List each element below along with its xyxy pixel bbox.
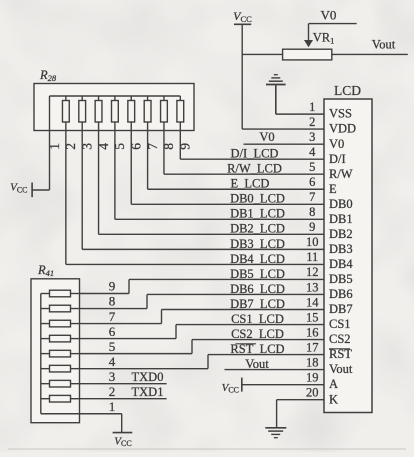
wire R41 pin 8 to LCD pin 13 (DB6_LCD) <box>80 294 325 308</box>
svg-text:2: 2 <box>109 384 116 399</box>
resistor R28-9 element <box>177 96 184 131</box>
svg-text:14: 14 <box>306 295 319 309</box>
R28 pin 1 lead <box>49 96 51 190</box>
svg-text:16: 16 <box>306 325 319 339</box>
ground (bottom, K) <box>265 428 286 438</box>
power symbol VCC (pin 19 A) <box>222 378 242 395</box>
svg-text:1: 1 <box>309 100 315 114</box>
R28 common bus <box>50 95 181 97</box>
svg-text:6: 6 <box>109 324 116 339</box>
svg-text:CS2_LCD: CS2_LCD <box>231 327 284 341</box>
resistor R41-8 element <box>41 305 80 312</box>
wire VCC bar to R28 pin 1 <box>32 189 49 191</box>
svg-text:3: 3 <box>309 130 315 144</box>
svg-text:DB6: DB6 <box>329 287 353 301</box>
resistor R41-5 element <box>41 350 80 357</box>
svg-text:E: E <box>329 182 337 196</box>
svg-text:Vout: Vout <box>372 37 396 51</box>
svg-text:E_LCD: E_LCD <box>231 177 270 191</box>
svg-text:DB0: DB0 <box>329 197 353 211</box>
svg-text:19: 19 <box>306 370 319 384</box>
resistor R41-6 element <box>41 335 80 342</box>
svg-text:D/I: D/I <box>329 152 346 166</box>
svg-text:DB2_LCD: DB2_LCD <box>230 222 285 236</box>
resistor network R28 box <box>34 68 194 131</box>
svg-text:K: K <box>329 392 338 406</box>
svg-text:LCD: LCD <box>334 83 361 98</box>
svg-text:DB4: DB4 <box>329 257 353 271</box>
resistor R28-3 element <box>79 96 86 131</box>
svg-text:DB4_LCD: DB4_LCD <box>230 252 285 266</box>
wire R28 pin 6 to LCD pin 7 (DB0_LCD) <box>131 131 324 205</box>
wire R41 pin 9 to LCD pin 12 (DB5_LCD) <box>80 279 325 293</box>
resistor R28-8 element <box>161 96 168 131</box>
svg-text:8: 8 <box>109 294 116 309</box>
wire R41 pin 4 to LCD pin 17 (RST_LCD) <box>80 355 325 369</box>
svg-text:Vout: Vout <box>329 362 353 376</box>
resistor R41-9 element <box>41 290 80 297</box>
svg-text:13: 13 <box>306 280 319 294</box>
resistor R28-5 element <box>112 96 119 131</box>
svg-text:DB1_LCD: DB1_LCD <box>230 207 285 221</box>
svg-text:8: 8 <box>309 205 315 219</box>
resistor network R41 box <box>31 263 80 423</box>
scan artifact line <box>8 448 406 450</box>
svg-text:DB3_LCD: DB3_LCD <box>230 237 285 251</box>
svg-text:DB2: DB2 <box>329 227 353 241</box>
svg-text:TXD0: TXD0 <box>132 370 164 384</box>
resistor R28-7 element <box>144 96 151 131</box>
svg-text:17: 17 <box>306 340 319 354</box>
svg-text:7: 7 <box>309 190 315 204</box>
svg-text:CS1: CS1 <box>329 317 351 331</box>
LCD module U1 box <box>324 83 372 413</box>
svg-text:DB1: DB1 <box>329 212 353 226</box>
wire R28 pin 4 to LCD pin 9 (DB2_LCD) <box>99 131 324 235</box>
svg-text:V0: V0 <box>321 8 337 23</box>
svg-text:DB0_LCD: DB0_LCD <box>230 192 285 206</box>
svg-text:R/W: R/W <box>329 167 353 181</box>
svg-text:6: 6 <box>309 175 315 189</box>
wire VCC to potentiometer left terminal <box>242 53 282 55</box>
pin 17 name RST <box>329 347 352 361</box>
svg-text:A: A <box>329 377 338 391</box>
svg-text:CS2: CS2 <box>329 332 351 346</box>
power symbol VCC (top, to VDD) <box>233 9 252 24</box>
svg-text:9: 9 <box>309 220 315 234</box>
svg-text:18: 18 <box>306 355 319 369</box>
resistor R28-6 element <box>128 96 135 131</box>
wire R41 pin 2 (TXD1) <box>80 398 167 400</box>
wire VDD into LCD pin 2 <box>242 128 324 130</box>
svg-text:DB3: DB3 <box>329 242 353 256</box>
svg-text:5: 5 <box>309 160 315 174</box>
svg-text:TXD1: TXD1 <box>132 385 164 399</box>
ground (top, VSS) <box>266 75 286 114</box>
resistor R28-2 element <box>62 96 69 131</box>
svg-text:D/I_LCD: D/I_LCD <box>231 147 279 161</box>
wire R28 pin 5 to LCD pin 8 (DB1_LCD) <box>115 131 324 220</box>
svg-text:1: 1 <box>109 399 116 414</box>
svg-text:R/W_LCD: R/W_LCD <box>227 162 282 176</box>
resistor R41-3 element <box>41 380 80 387</box>
resistor R41-7 element <box>41 320 80 327</box>
svg-text:15: 15 <box>306 310 319 324</box>
wire R41 pin 3 (TXD0) <box>80 383 167 385</box>
svg-text:20: 20 <box>306 385 319 399</box>
wire potentiometer right terminal to Vout <box>332 37 408 54</box>
svg-text:12: 12 <box>306 265 319 279</box>
svg-text:10: 10 <box>306 235 319 249</box>
svg-text:DB6_LCD: DB6_LCD <box>230 282 285 296</box>
wire R28 pin 8 to LCD pin 5 (R/W_LCD) <box>164 131 324 175</box>
svg-text:7: 7 <box>109 309 116 324</box>
svg-text:4: 4 <box>309 145 316 159</box>
svg-text:DB7_LCD: DB7_LCD <box>230 297 285 311</box>
wire LCD pin 20 to ground <box>277 400 324 428</box>
node V0 (wiper wire with arrow) <box>304 8 357 48</box>
svg-text:2: 2 <box>309 115 315 129</box>
net label RST_LCD <box>230 342 284 356</box>
svg-text:VDD: VDD <box>329 122 356 136</box>
svg-text:V0: V0 <box>329 137 344 151</box>
svg-text:5: 5 <box>109 339 116 354</box>
net label Vout to LCD pin 18 <box>225 357 325 371</box>
potentiometer VR1 body <box>283 31 335 60</box>
svg-text:4: 4 <box>109 354 116 369</box>
node V0 net label to LCD pin 3 <box>244 130 325 144</box>
svg-text:11: 11 <box>306 250 318 264</box>
wire R28 pin 3 to LCD pin 10 (DB3_LCD) <box>82 131 324 250</box>
wire R41 pin 1 to VCC <box>41 414 122 433</box>
svg-text:3: 3 <box>109 369 116 384</box>
wire ground to LCD pin 1 <box>276 113 324 115</box>
R41 common bus <box>40 294 42 414</box>
svg-text:DB7: DB7 <box>329 302 353 316</box>
svg-text:9: 9 <box>109 279 116 294</box>
wire R41 pin 6 to LCD pin 15 (CS1_LCD) <box>80 325 325 339</box>
svg-text:VSS: VSS <box>329 107 352 121</box>
power symbol VCC (bottom, R41 pin 1) <box>113 433 133 448</box>
wire R41 pin 5 to LCD pin 16 (CS2_LCD) <box>80 340 325 354</box>
svg-text:V0: V0 <box>259 130 274 144</box>
resistor R41-2 element <box>41 395 80 402</box>
wire VCC stem down to VDD level <box>241 24 243 129</box>
svg-text:DB5_LCD: DB5_LCD <box>230 267 285 281</box>
resistor R28-4 element <box>95 96 102 131</box>
svg-text:CS1_LCD: CS1_LCD <box>231 312 284 326</box>
wire R28 pin 7 to LCD pin 6 (E_LCD) <box>148 131 324 190</box>
power symbol VCC (left, R28 pin 1) <box>10 182 32 198</box>
wire R41 pin 7 to LCD pin 14 (DB7_LCD) <box>80 309 325 323</box>
svg-text:DB5: DB5 <box>329 272 353 286</box>
wire R28 pin 2 to LCD pin 11 (DB4_LCD) <box>66 131 324 265</box>
resistor R41-4 element <box>41 365 80 372</box>
wire VCC to LCD pin 19 <box>242 384 324 386</box>
wire R28 pin 9 to LCD pin 4 (D/I_LCD) <box>180 131 324 160</box>
